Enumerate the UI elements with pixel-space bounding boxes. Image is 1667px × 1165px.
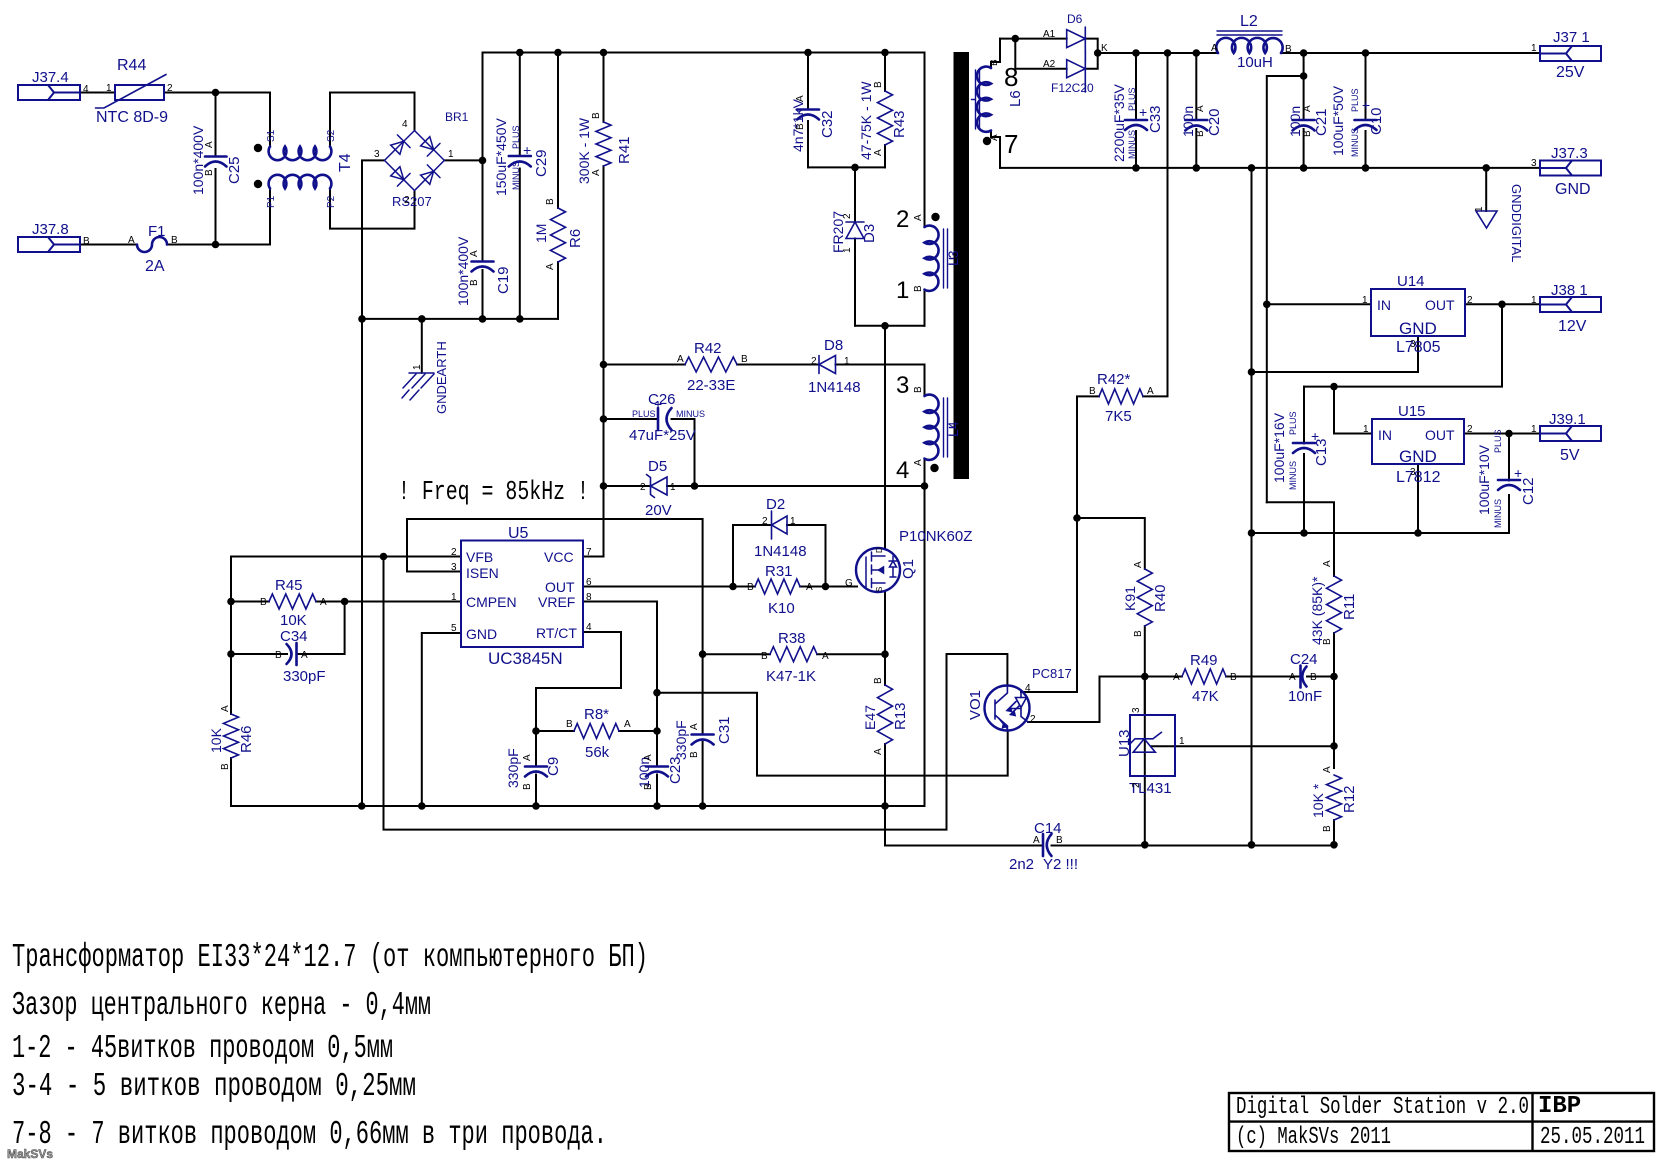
svg-text:A: A (1133, 561, 1144, 568)
wire TL431 ref pin1 (1151, 745, 1334, 747)
svg-text:2n2: 2n2 (1009, 856, 1034, 873)
svg-text:J39.1: J39.1 (1549, 411, 1586, 428)
wire D6 cathodes to K node (1085, 39, 1097, 69)
wire BR1 pin1 to HV+ node (444, 159, 482, 161)
svg-text:1: 1 (1179, 736, 1185, 747)
svg-text:RS207: RS207 (392, 194, 432, 209)
resistor R13 (878, 685, 893, 744)
capacitor C26 electrolytic (658, 408, 672, 430)
svg-text:1N4148: 1N4148 (808, 379, 861, 396)
svg-text:A: A (806, 582, 813, 593)
zener diode D5 (647, 475, 668, 498)
winding L3 primary 2-1 (925, 226, 939, 291)
ground GNDDIGITAL (1476, 211, 1497, 228)
svg-text:D3: D3 (861, 224, 878, 243)
svg-text:2: 2 (1030, 714, 1036, 725)
svg-text:A: A (822, 651, 829, 662)
svg-text:B: B (591, 112, 602, 119)
wire C29 vertical (519, 53, 521, 319)
wire VCC node through R42 and D8 to winding pin3 (604, 365, 925, 397)
transistor Q1 MOSFET (856, 548, 900, 592)
svg-text:D: D (875, 547, 884, 553)
svg-text:3: 3 (1131, 707, 1142, 713)
diode D3 (846, 222, 864, 239)
svg-text:B: B (1056, 835, 1063, 846)
svg-text:GND: GND (1399, 319, 1437, 338)
wire 16V feed through R11 R12 chain (1267, 502, 1334, 845)
wire R31 to gate (733, 586, 857, 588)
svg-text:20V: 20V (645, 502, 672, 519)
wire HV+ top bus (483, 52, 925, 54)
svg-text:4: 4 (402, 119, 408, 130)
svg-text:10uH: 10uH (1237, 54, 1273, 71)
svg-text:A: A (873, 149, 884, 156)
svg-text:A: A (1322, 560, 1333, 567)
svg-text:22-33E: 22-33E (687, 377, 735, 394)
svg-text:! Freq = 85kHz !: ! Freq = 85kHz ! (398, 478, 589, 508)
connector J38.1 (1540, 297, 1601, 312)
svg-text:B: B (522, 783, 533, 790)
svg-text:B: B (469, 279, 480, 286)
svg-text:MINUS: MINUS (1350, 128, 1360, 157)
resistor R31 (755, 579, 800, 594)
svg-text:Y2 !!!: Y2 !!! (1043, 856, 1078, 873)
svg-text:C19: C19 (495, 266, 512, 294)
svg-text:150uF*450V: 150uF*450V (493, 117, 509, 196)
wire secondary GND bus at 533 (1252, 532, 1510, 534)
svg-text:T4: T4 (337, 153, 354, 172)
svg-text:S2: S2 (326, 129, 337, 142)
resistor R42 (685, 357, 737, 372)
svg-text:A: A (1322, 766, 1333, 773)
svg-text:B: B (171, 235, 178, 246)
svg-text:R6: R6 (567, 229, 584, 248)
svg-text:(c) MakSVs 2011: (c) MakSVs 2011 (1236, 1124, 1391, 1151)
svg-text:2: 2 (167, 83, 173, 94)
svg-text:OUT: OUT (1425, 297, 1455, 313)
inductor L2 core lines (1217, 31, 1282, 35)
title block frame (1229, 1093, 1654, 1151)
svg-text:C20: C20 (1206, 108, 1223, 136)
wire 16V rail from C21 node down to U14 IN and below (1267, 76, 1304, 502)
svg-text:C10: C10 (1368, 107, 1385, 135)
svg-text:2: 2 (640, 482, 646, 493)
svg-text:B: B (913, 386, 924, 393)
svg-text:3: 3 (451, 562, 457, 573)
svg-text:B: B (1230, 672, 1237, 683)
svg-text:A: A (522, 754, 533, 761)
svg-text:D2: D2 (766, 496, 785, 513)
diode D8 (819, 356, 836, 374)
svg-text:IBP: IBP (1538, 1093, 1581, 1120)
svg-text:A1: A1 (1043, 29, 1056, 40)
svg-text:VFB: VFB (466, 549, 493, 565)
IC U13 TL431 (1130, 715, 1175, 776)
svg-text:43K (85K)*: 43K (85K)* (1309, 576, 1325, 645)
svg-text:1: 1 (844, 356, 850, 367)
wire R13 bottom to C14 line (885, 806, 1334, 846)
resistor R40 (1137, 569, 1152, 626)
svg-text:2: 2 (1131, 782, 1142, 788)
svg-text:C21: C21 (1313, 108, 1330, 136)
wire L6 bottom lead pin7 (991, 131, 1000, 168)
svg-text:NTC 8D-9: NTC 8D-9 (96, 109, 168, 126)
svg-text:J38 1: J38 1 (1551, 282, 1588, 299)
svg-text:R8*: R8* (584, 706, 609, 723)
svg-text:100uF*50V: 100uF*50V (1330, 85, 1346, 156)
wire T4 P2 to BR1 pin2 (330, 189, 415, 229)
svg-text:R43: R43 (891, 110, 908, 138)
svg-text:B: B (1322, 825, 1333, 832)
svg-text:J37.8: J37.8 (32, 221, 69, 238)
svg-text:PLUS: PLUS (1493, 429, 1503, 453)
svg-text:J37.4: J37.4 (32, 69, 69, 86)
svg-text:25.05.2011: 25.05.2011 (1540, 1124, 1645, 1151)
svg-text:+: + (1139, 104, 1147, 120)
svg-text:C31: C31 (716, 716, 733, 744)
wire L3 bottom lead (924, 290, 926, 326)
svg-text:7: 7 (586, 547, 592, 558)
winding L3 core lines (944, 229, 954, 288)
svg-text:C32: C32 (819, 110, 836, 138)
wire C26 branch (604, 419, 695, 486)
svg-text:P2: P2 (326, 195, 337, 208)
svg-text:R38: R38 (778, 630, 806, 647)
svg-text:L6: L6 (1007, 90, 1024, 107)
capacitor C23 (646, 767, 668, 777)
svg-text:B: B (689, 751, 700, 758)
svg-text:A: A (677, 354, 684, 365)
svg-text:MINUS: MINUS (1127, 130, 1137, 159)
wire 12V feed to U15 IN (1334, 387, 1372, 434)
wire BR1 pin3 down left rail to bottom bus (362, 160, 385, 806)
wire C13 stubs (1303, 387, 1305, 533)
svg-text:B: B (747, 582, 754, 593)
svg-text:ISEN: ISEN (466, 565, 499, 581)
svg-text:1: 1 (106, 83, 112, 94)
svg-text:1: 1 (448, 149, 454, 160)
wire opto pin4 up through R42x to 25V rail (1021, 53, 1168, 692)
svg-text:UC3845N: UC3845N (488, 649, 563, 668)
svg-text:A: A (795, 95, 806, 102)
svg-text:100n: 100n (1287, 106, 1303, 137)
svg-text:2: 2 (842, 213, 853, 219)
transformer core bar (954, 52, 970, 479)
svg-text:VO1: VO1 (967, 690, 984, 720)
wire input from J37.4 through R44 to C25 node and T4 S1 (80, 93, 270, 147)
svg-text:P10NK60Z: P10NK60Z (899, 528, 972, 545)
connector J37.3 (1540, 161, 1601, 176)
svg-text:RT/CT: RT/CT (536, 625, 577, 641)
svg-text:MINUS: MINUS (511, 161, 521, 190)
wire C20 stubs (1195, 53, 1197, 168)
wire primary GND bottom bus (231, 805, 925, 807)
wire drain vertical to Q1 (884, 326, 886, 548)
svg-text:1M: 1M (533, 224, 549, 243)
wire R8 segment (536, 730, 657, 732)
resistor R12 (1327, 775, 1342, 820)
svg-text:MINUS: MINUS (1493, 499, 1503, 528)
wire U15 GND (1417, 464, 1419, 533)
svg-text:1: 1 (896, 277, 909, 304)
winding L6 secondary 8-7 (977, 67, 991, 132)
resistor R6 (551, 208, 566, 262)
svg-text:A: A (624, 719, 631, 730)
svg-text:1: 1 (1362, 295, 1368, 306)
svg-text:B: B (1089, 386, 1096, 397)
svg-text:A: A (545, 263, 556, 270)
svg-text:PC817: PC817 (1032, 666, 1072, 681)
wire 12V branch down to C13 R11 node (1304, 304, 1502, 386)
dual diode D6 (1067, 27, 1086, 92)
svg-text:MINUS: MINUS (676, 409, 705, 419)
resistor R44 NTC body (96, 75, 167, 109)
svg-text:A: A (1211, 43, 1218, 54)
wire Q1 source to R38 node and R13 (884, 592, 886, 806)
svg-text:C29: C29 (533, 149, 550, 177)
svg-text:1-2 - 45витков проводом 0,5мм: 1-2 - 45витков проводом 0,5мм (12, 1030, 393, 1067)
wire C12 stubs (1508, 434, 1510, 534)
svg-text:B: B (1133, 630, 1144, 637)
svg-text:100n*400V: 100n*400V (190, 125, 206, 195)
resistor R38 (770, 647, 817, 662)
svg-text:100uF*10V: 100uF*10V (1476, 444, 1492, 515)
wire D6 anode A2 (1015, 39, 1066, 69)
svg-text:R46: R46 (238, 725, 255, 753)
svg-text:R31: R31 (765, 563, 793, 580)
wire snubber bottom segment (808, 166, 885, 168)
wire C9 stubs (535, 731, 537, 806)
svg-text:100n: 100n (1180, 106, 1196, 137)
svg-text:OUT: OUT (1425, 427, 1455, 443)
svg-text:4: 4 (1025, 683, 1031, 694)
svg-text:47uF*25V: 47uF*25V (629, 427, 696, 444)
svg-text:2200uF*35V: 2200uF*35V (1111, 83, 1127, 162)
svg-text:C13: C13 (1313, 438, 1330, 466)
wire J37.8 through F1 to C25 bottom node and T4 P1 (80, 189, 270, 245)
wire secondary GND rail (1000, 167, 1540, 169)
svg-text:A: A (689, 723, 700, 730)
svg-text:L2: L2 (1240, 13, 1258, 30)
capacitor C14 (1043, 834, 1052, 856)
svg-text:3-4 - 5 витков проводом 0,25мм: 3-4 - 5 витков проводом 0,25мм (12, 1068, 416, 1105)
svg-text:1: 1 (1531, 295, 1537, 306)
svg-text:GND: GND (1399, 447, 1437, 466)
svg-text:F1: F1 (148, 223, 166, 240)
resistor R45 (269, 594, 316, 609)
svg-text:1N4148: 1N4148 (754, 543, 807, 560)
svg-text:A: A (1289, 672, 1296, 683)
svg-text:A: A (873, 748, 884, 755)
svg-text:GND: GND (1555, 181, 1591, 198)
wire GNDEARTH stub (421, 319, 423, 373)
diode D2 (772, 511, 788, 539)
capacitor C34 (287, 643, 297, 665)
wire GNDDIGITAL stub (1485, 168, 1487, 211)
wire ISEN route to R38 node and C31 (407, 519, 703, 806)
svg-text:3: 3 (1410, 339, 1416, 350)
svg-text:B: B (1322, 638, 1333, 645)
wire R49 C24 segment (1145, 676, 1334, 678)
svg-text:1: 1 (790, 516, 796, 527)
svg-text:S1: S1 (266, 129, 277, 142)
svg-text:S: S (875, 587, 884, 592)
resistor R46 (224, 714, 239, 758)
svg-text:R45: R45 (275, 577, 303, 594)
svg-text:A: A (220, 705, 231, 712)
svg-text:47-75K - 1W: 47-75K - 1W (858, 81, 874, 160)
wire C25 vertical stubs (215, 93, 217, 245)
svg-text:1: 1 (842, 247, 853, 253)
svg-text:GND: GND (466, 626, 497, 642)
svg-text:4: 4 (83, 84, 89, 95)
svg-text:2: 2 (811, 356, 817, 367)
svg-text:B: B (1285, 44, 1292, 55)
svg-text:VREF: VREF (538, 594, 575, 610)
svg-text:4: 4 (586, 622, 592, 633)
svg-text:A: A (913, 459, 924, 466)
svg-text:R41: R41 (616, 136, 633, 164)
capacitor C31 (692, 735, 714, 745)
svg-text:330pF: 330pF (505, 748, 521, 788)
svg-text:5V: 5V (1560, 447, 1580, 464)
svg-text:L7812: L7812 (1396, 469, 1441, 486)
svg-text:K47-1K: K47-1K (766, 668, 816, 685)
svg-text:B: B (873, 81, 884, 88)
connector J37.4 (18, 85, 80, 100)
svg-text:J37.3: J37.3 (1551, 145, 1588, 162)
svg-text:100n*400V: 100n*400V (455, 236, 471, 306)
svg-text:2: 2 (1467, 295, 1473, 306)
svg-text:B: B (1195, 130, 1206, 137)
svg-text:L3: L3 (945, 250, 961, 266)
svg-text:2: 2 (451, 547, 457, 558)
wire L4 leads (924, 459, 926, 806)
svg-text:C25: C25 (226, 156, 243, 184)
svg-text:C33: C33 (1147, 105, 1164, 133)
transformer T4 secondary coil S1-S2 (269, 147, 332, 161)
svg-text:PLUS: PLUS (632, 409, 656, 419)
wire U13 cathode anode vertical (1144, 677, 1146, 845)
wire U14 IN (1267, 303, 1371, 305)
svg-text:U13: U13 (1116, 729, 1133, 757)
svg-text:B: B (204, 169, 215, 176)
resistor R8 (574, 724, 619, 739)
svg-text:IN: IN (1378, 427, 1392, 443)
wire U14 OUT to J38.1 (1465, 303, 1540, 305)
wire C33 stubs (1135, 53, 1137, 168)
svg-text:MakSVs: MakSVs (7, 1147, 53, 1161)
wire U5 GND pin5 down (422, 633, 461, 806)
wire C32 vertical (807, 53, 809, 168)
wire opto top return to feedback (384, 557, 1008, 830)
wire R43 vertical (884, 53, 886, 168)
svg-text:1: 1 (1531, 43, 1537, 54)
wire VREF branch to opto emitter return (657, 693, 1008, 776)
svg-text:1: 1 (451, 592, 457, 603)
wire R6 vertical (557, 53, 559, 319)
svg-text:R40: R40 (1152, 584, 1169, 612)
optocoupler VO1 (985, 686, 1030, 731)
svg-text:10K *: 10K * (1310, 783, 1326, 818)
svg-text:+: + (654, 396, 662, 412)
inductor L2 (1216, 38, 1282, 53)
svg-text:A: A (301, 650, 308, 661)
svg-text:3: 3 (1531, 158, 1537, 169)
svg-text:U5: U5 (508, 525, 529, 542)
svg-text:GNDEARTH: GNDEARTH (434, 341, 449, 414)
svg-text:330pF: 330pF (673, 720, 689, 760)
svg-text:L7805: L7805 (1396, 339, 1441, 356)
svg-text:2A: 2A (145, 258, 165, 275)
svg-text:Digital Solder Station v 2.0: Digital Solder Station v 2.0 (1236, 1094, 1529, 1121)
svg-text:10nF: 10nF (1288, 688, 1322, 705)
capacitor C29 electrolytic (509, 156, 531, 167)
svg-text:Q1: Q1 (900, 559, 917, 579)
svg-text:J37 1: J37 1 (1553, 29, 1590, 46)
wire U5 OUT to gate loop (583, 586, 733, 588)
ground GNDEARTH symbol (402, 373, 434, 400)
svg-text:12V: 12V (1558, 318, 1587, 335)
svg-text:B: B (83, 236, 90, 247)
svg-text:Зазор центрального керна - 0,4: Зазор центрального керна - 0,4мм (12, 987, 431, 1024)
svg-text:P1: P1 (266, 195, 277, 208)
svg-text:B: B (873, 677, 884, 684)
svg-text:2: 2 (896, 206, 909, 233)
svg-text:A: A (913, 214, 924, 221)
wire main GND spine (1251, 168, 1253, 845)
wire VREF rail (583, 602, 657, 732)
svg-text:PLUS: PLUS (1127, 87, 1137, 111)
svg-text:B: B (1302, 130, 1313, 137)
svg-text:6: 6 (586, 577, 592, 588)
wire C34 branch (231, 602, 345, 655)
wire U5 VFB left rail (231, 557, 461, 807)
svg-text:B: B (1310, 672, 1317, 683)
resistor R41 (596, 122, 611, 166)
svg-text:56k: 56k (585, 744, 610, 761)
svg-text:B: B (545, 198, 556, 205)
svg-text:B: B (913, 285, 924, 292)
wire HV+ bus corner down to winding pin2 (924, 53, 926, 228)
svg-text:F12C20: F12C20 (1051, 81, 1094, 95)
svg-text:BR1: BR1 (445, 110, 469, 124)
resistor R43 (878, 91, 893, 145)
node phase dot L4 (930, 464, 938, 472)
wire HV- bottom bus (362, 318, 558, 320)
svg-text:CMPEN: CMPEN (466, 594, 517, 610)
svg-text:7-8 - 7 витков проводом 0,66мм: 7-8 - 7 витков проводом 0,66мм в три про… (12, 1116, 607, 1153)
node phase dot S1 (254, 144, 262, 152)
connector J37.8 (18, 237, 80, 252)
resistor R42x 7K5 (1099, 389, 1143, 404)
wire L6 top lead (991, 39, 1000, 68)
capacitor C13 electrolytic (1293, 443, 1315, 453)
svg-text:3: 3 (1410, 467, 1416, 478)
wire R38 segment (703, 653, 885, 655)
winding L4 core lines (944, 398, 954, 457)
svg-text:B: B (741, 354, 748, 365)
capacitor C19 (472, 262, 494, 272)
svg-text:R13: R13 (892, 702, 909, 730)
svg-text:A: A (128, 235, 135, 246)
svg-text:47K: 47K (1192, 688, 1219, 705)
svg-text:A: A (1147, 386, 1154, 397)
capacitor C33 electrolytic (1125, 120, 1147, 130)
wire C10 stubs (1365, 53, 1367, 168)
svg-text:A: A (1173, 672, 1180, 683)
svg-text:25V: 25V (1556, 64, 1585, 81)
